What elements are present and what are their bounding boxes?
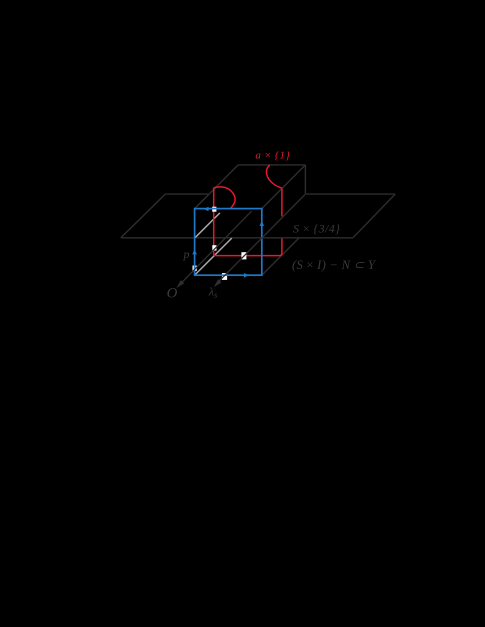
plane front edge (121, 237, 353, 239)
red arc a right loop on top face (266, 165, 281, 188)
blue square S boundary (195, 209, 262, 276)
red wall right vertical upper segment (281, 188, 283, 216)
red wall left vertical + bottom horizontal + right lower vertical (214, 188, 282, 256)
svg-text:(S × I) − N ⊂ Y: (S × I) − N ⊂ Y (292, 258, 377, 272)
box back-top edge (238, 164, 305, 166)
ray O arrowhead (176, 280, 184, 288)
box back-right vertical edge (304, 165, 306, 194)
blue arrow bottom edge pointing right (244, 273, 249, 278)
blue arrow right edge pointing up (260, 221, 265, 226)
plane S x {3/4} back edge (left of box) (165, 193, 208, 195)
white crossing square M2 (241, 252, 246, 259)
svg-text:a × {1}: a × {1} (255, 150, 290, 162)
white crossing square M5 (212, 207, 216, 212)
svg-text:S × {3/4}: S × {3/4} (293, 221, 340, 235)
white crossing square M1 (212, 245, 216, 250)
hidden gray: plane-left-face intersection (195, 213, 220, 238)
white crossing square M4 (193, 266, 197, 272)
svg-text:O: O (167, 285, 178, 301)
plane back edge (right of box) (305, 193, 395, 195)
box top-left edge (195, 165, 239, 209)
ray through O (179, 211, 252, 286)
box top-right edge (262, 165, 306, 209)
hidden gray: box bottom-left edge (195, 238, 232, 274)
blue arrow top edge pointing left (204, 207, 209, 211)
plane right slant edge (353, 194, 395, 238)
svg-text:p: p (183, 247, 190, 261)
white crossing square M3 (222, 273, 227, 280)
plane left slant edge (121, 194, 166, 238)
box bottom-right edge (262, 238, 299, 275)
ray lambda_s arrowhead (214, 279, 222, 287)
red arc a left loop (214, 187, 235, 208)
blue arrow left edge pointing up (192, 249, 197, 254)
ray lambda_s (216, 195, 305, 285)
